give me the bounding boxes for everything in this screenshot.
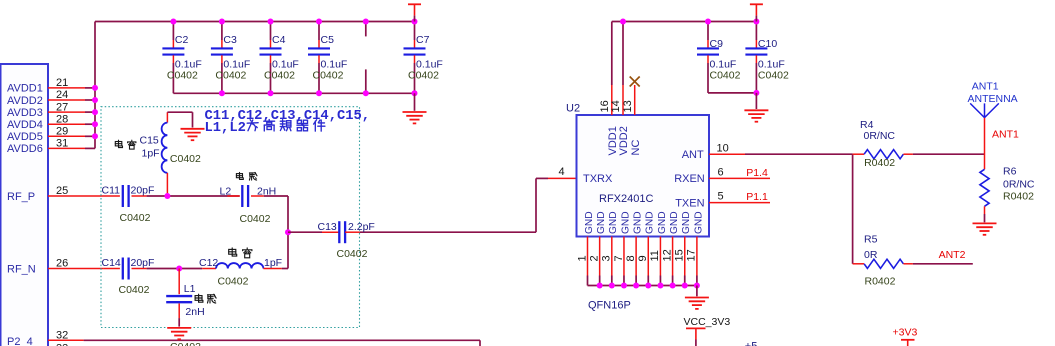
svg-text:P1.1: P1.1 xyxy=(746,191,768,203)
svg-text:C0402: C0402 xyxy=(167,70,198,82)
svg-text:AVDD2: AVDD2 xyxy=(7,95,43,107)
svg-text:2.2pF: 2.2pF xyxy=(348,221,375,233)
svg-text:C0402: C0402 xyxy=(215,70,246,82)
svg-text:C5: C5 xyxy=(321,34,335,46)
svg-text:11: 11 xyxy=(649,250,661,261)
svg-text:20pF: 20pF xyxy=(131,184,155,196)
svg-text:GND: GND xyxy=(645,211,656,234)
svg-text:13: 13 xyxy=(622,100,634,112)
svg-text:26: 26 xyxy=(56,258,68,270)
svg-text:ANT: ANT xyxy=(682,149,704,161)
svg-text:2: 2 xyxy=(588,255,600,261)
svg-text:24: 24 xyxy=(56,89,68,101)
svg-text:TXRX: TXRX xyxy=(583,173,613,185)
svg-text:1pF: 1pF xyxy=(142,148,160,160)
svg-text:GND: GND xyxy=(620,211,631,234)
svg-text:31: 31 xyxy=(56,138,68,150)
svg-text:C0402: C0402 xyxy=(313,70,344,82)
svg-text:GND: GND xyxy=(584,211,595,234)
svg-text:33: 33 xyxy=(56,343,68,346)
svg-text:C13: C13 xyxy=(318,221,337,233)
svg-text:C0402: C0402 xyxy=(408,70,439,82)
svg-text:5: 5 xyxy=(718,191,724,203)
svg-text:C0402: C0402 xyxy=(710,69,741,81)
svg-text:C12: C12 xyxy=(199,257,218,269)
svg-text:20pF: 20pF xyxy=(131,257,155,269)
svg-text:P1.4: P1.4 xyxy=(746,167,768,179)
svg-text:RFX2401C: RFX2401C xyxy=(599,193,653,205)
svg-text:C14: C14 xyxy=(102,257,121,269)
svg-text:0R/NC: 0R/NC xyxy=(864,130,896,142)
svg-text:14: 14 xyxy=(610,100,622,112)
svg-text:2nH: 2nH xyxy=(185,306,204,318)
svg-text:U2: U2 xyxy=(566,103,580,115)
svg-text:GND: GND xyxy=(608,211,619,234)
svg-text:C0402: C0402 xyxy=(337,248,368,260)
svg-text:28: 28 xyxy=(56,113,68,125)
svg-text:8: 8 xyxy=(625,255,637,261)
svg-text:21: 21 xyxy=(56,77,68,89)
svg-text:4: 4 xyxy=(559,166,565,178)
svg-text:C0402: C0402 xyxy=(170,341,201,346)
svg-text:R0402: R0402 xyxy=(1003,190,1034,202)
svg-text:QFN16P: QFN16P xyxy=(588,300,631,312)
svg-text:GND: GND xyxy=(633,211,644,234)
svg-text:16: 16 xyxy=(599,100,611,112)
svg-text:+3V3: +3V3 xyxy=(893,327,918,339)
svg-text:ANT1: ANT1 xyxy=(992,128,1019,140)
svg-text:C3: C3 xyxy=(223,34,237,46)
svg-text:12: 12 xyxy=(661,249,673,261)
svg-text:C11: C11 xyxy=(102,184,121,196)
svg-text:25: 25 xyxy=(56,185,68,197)
svg-text:C0402: C0402 xyxy=(120,212,151,224)
svg-text:10: 10 xyxy=(717,142,729,154)
svg-text:VDD2: VDD2 xyxy=(618,126,630,155)
svg-text:AVDD1: AVDD1 xyxy=(7,83,43,95)
svg-text:C9: C9 xyxy=(710,38,724,50)
svg-text:0R: 0R xyxy=(864,249,878,261)
svg-text:R6: R6 xyxy=(1003,166,1017,178)
svg-text:C0402: C0402 xyxy=(119,284,150,296)
svg-text:C0402: C0402 xyxy=(218,276,249,288)
svg-text:32: 32 xyxy=(56,330,68,342)
svg-text:L2: L2 xyxy=(220,185,232,197)
svg-text:GND: GND xyxy=(596,211,607,234)
svg-text:GND: GND xyxy=(681,211,692,234)
svg-text:C0402: C0402 xyxy=(264,70,295,82)
svg-text:NC: NC xyxy=(630,140,642,156)
svg-text:C15: C15 xyxy=(140,134,159,146)
svg-text:ANT2: ANT2 xyxy=(939,249,966,261)
svg-text:6: 6 xyxy=(718,167,724,179)
svg-text:TXEN: TXEN xyxy=(675,197,704,209)
svg-text:P2_4: P2_4 xyxy=(7,336,33,346)
svg-text:R5: R5 xyxy=(864,234,878,246)
svg-text:C0402: C0402 xyxy=(758,69,789,81)
svg-text:9: 9 xyxy=(637,255,649,261)
svg-text:RF_N: RF_N xyxy=(7,263,36,275)
svg-text:17: 17 xyxy=(686,249,698,261)
svg-text:L1,L2: L1,L2 xyxy=(205,121,246,136)
svg-text:C2: C2 xyxy=(175,34,189,46)
svg-text:L1: L1 xyxy=(184,283,196,295)
svg-text:RF_P: RF_P xyxy=(7,191,35,203)
svg-text:GND: GND xyxy=(669,211,680,234)
svg-text:VDD1: VDD1 xyxy=(607,126,619,155)
svg-text:GND: GND xyxy=(657,211,668,234)
svg-text:AVDD6: AVDD6 xyxy=(7,143,43,155)
svg-text:0R/NC: 0R/NC xyxy=(1003,179,1035,191)
svg-text:1pF: 1pF xyxy=(264,257,282,269)
svg-text:AVDD5: AVDD5 xyxy=(7,131,43,143)
svg-text:C0402: C0402 xyxy=(170,153,201,165)
svg-text:R0402: R0402 xyxy=(865,275,896,287)
svg-text:ANT1: ANT1 xyxy=(972,81,999,93)
svg-text:AVDD4: AVDD4 xyxy=(7,119,43,131)
svg-text:RXEN: RXEN xyxy=(674,173,705,185)
svg-text:GND: GND xyxy=(693,211,704,234)
svg-text:+5: +5 xyxy=(745,341,758,346)
svg-text:C0402: C0402 xyxy=(240,213,271,225)
svg-text:3: 3 xyxy=(601,255,613,261)
svg-text:1: 1 xyxy=(576,255,588,261)
svg-text:C4: C4 xyxy=(272,34,286,46)
svg-text:29: 29 xyxy=(56,126,68,138)
svg-text:AVDD3: AVDD3 xyxy=(7,107,43,119)
svg-text:C7: C7 xyxy=(416,34,430,46)
svg-text:2nH: 2nH xyxy=(257,185,276,197)
svg-text:C10: C10 xyxy=(758,38,777,50)
svg-text:27: 27 xyxy=(56,101,68,113)
svg-text:15: 15 xyxy=(674,249,686,261)
svg-text:ANTENNA: ANTENNA xyxy=(968,93,1018,105)
svg-text:R0402: R0402 xyxy=(864,157,895,169)
svg-text:7: 7 xyxy=(613,255,625,261)
svg-text:VCC_3V3: VCC_3V3 xyxy=(684,316,731,328)
